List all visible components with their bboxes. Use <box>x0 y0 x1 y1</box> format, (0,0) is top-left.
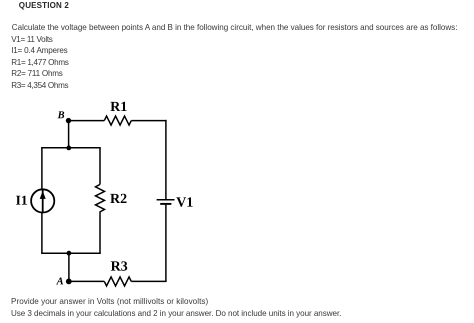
value R3 <box>11 82 68 90</box>
value I1 <box>11 47 67 55</box>
node A junction dot <box>66 279 72 285</box>
wire left branch upper (rail to I1) <box>41 148 43 190</box>
footer line 1 <box>11 298 208 306</box>
current source I1 arrowhead <box>40 191 46 199</box>
wire node A up to bottom junction <box>68 253 70 281</box>
heading QUESTION 2 <box>19 2 69 10</box>
wire node B down to top junction <box>68 121 70 148</box>
wire right side upper (to battery V1) <box>165 120 167 200</box>
top rail junction dot <box>66 146 71 151</box>
bottom rail junction dot <box>67 251 72 256</box>
label I1 <box>16 196 27 205</box>
label R1 <box>110 102 126 111</box>
value R2 <box>11 70 62 78</box>
wire right side lower (battery to bottom-right corner) <box>165 204 167 282</box>
battery V1 long plate <box>157 199 175 201</box>
wire bottom from R3 to node A <box>69 280 105 282</box>
wire inner bottom rail <box>42 252 100 255</box>
resistor R3 <box>104 277 131 286</box>
resistor R1 <box>104 116 131 125</box>
node B junction dot <box>66 118 71 123</box>
wire R2 branch upper (rail to R2) <box>99 148 101 185</box>
wire left branch lower (I1 to rail) <box>41 213 43 254</box>
label R2 <box>110 194 126 203</box>
label V1 <box>176 197 192 206</box>
wire inner top rail <box>42 147 100 150</box>
current source I1 circle <box>31 189 54 212</box>
footer line 2 <box>11 310 341 318</box>
wire top from node B to R1 <box>69 120 105 122</box>
label node A <box>56 277 63 284</box>
wire R2 branch lower (R2 to rail) <box>99 214 101 253</box>
label node B <box>58 111 65 118</box>
current source I1 arrow shaft <box>42 189 44 212</box>
resistor R2 <box>96 184 105 214</box>
wire bottom from corner to R3 <box>131 280 166 282</box>
value V1 <box>11 36 52 44</box>
battery V1 short plate <box>160 203 171 205</box>
paragraph line 1 <box>12 24 458 32</box>
label R3 <box>111 261 127 270</box>
wire top from R1 to top-right corner <box>131 120 166 122</box>
value R1 <box>11 59 68 67</box>
